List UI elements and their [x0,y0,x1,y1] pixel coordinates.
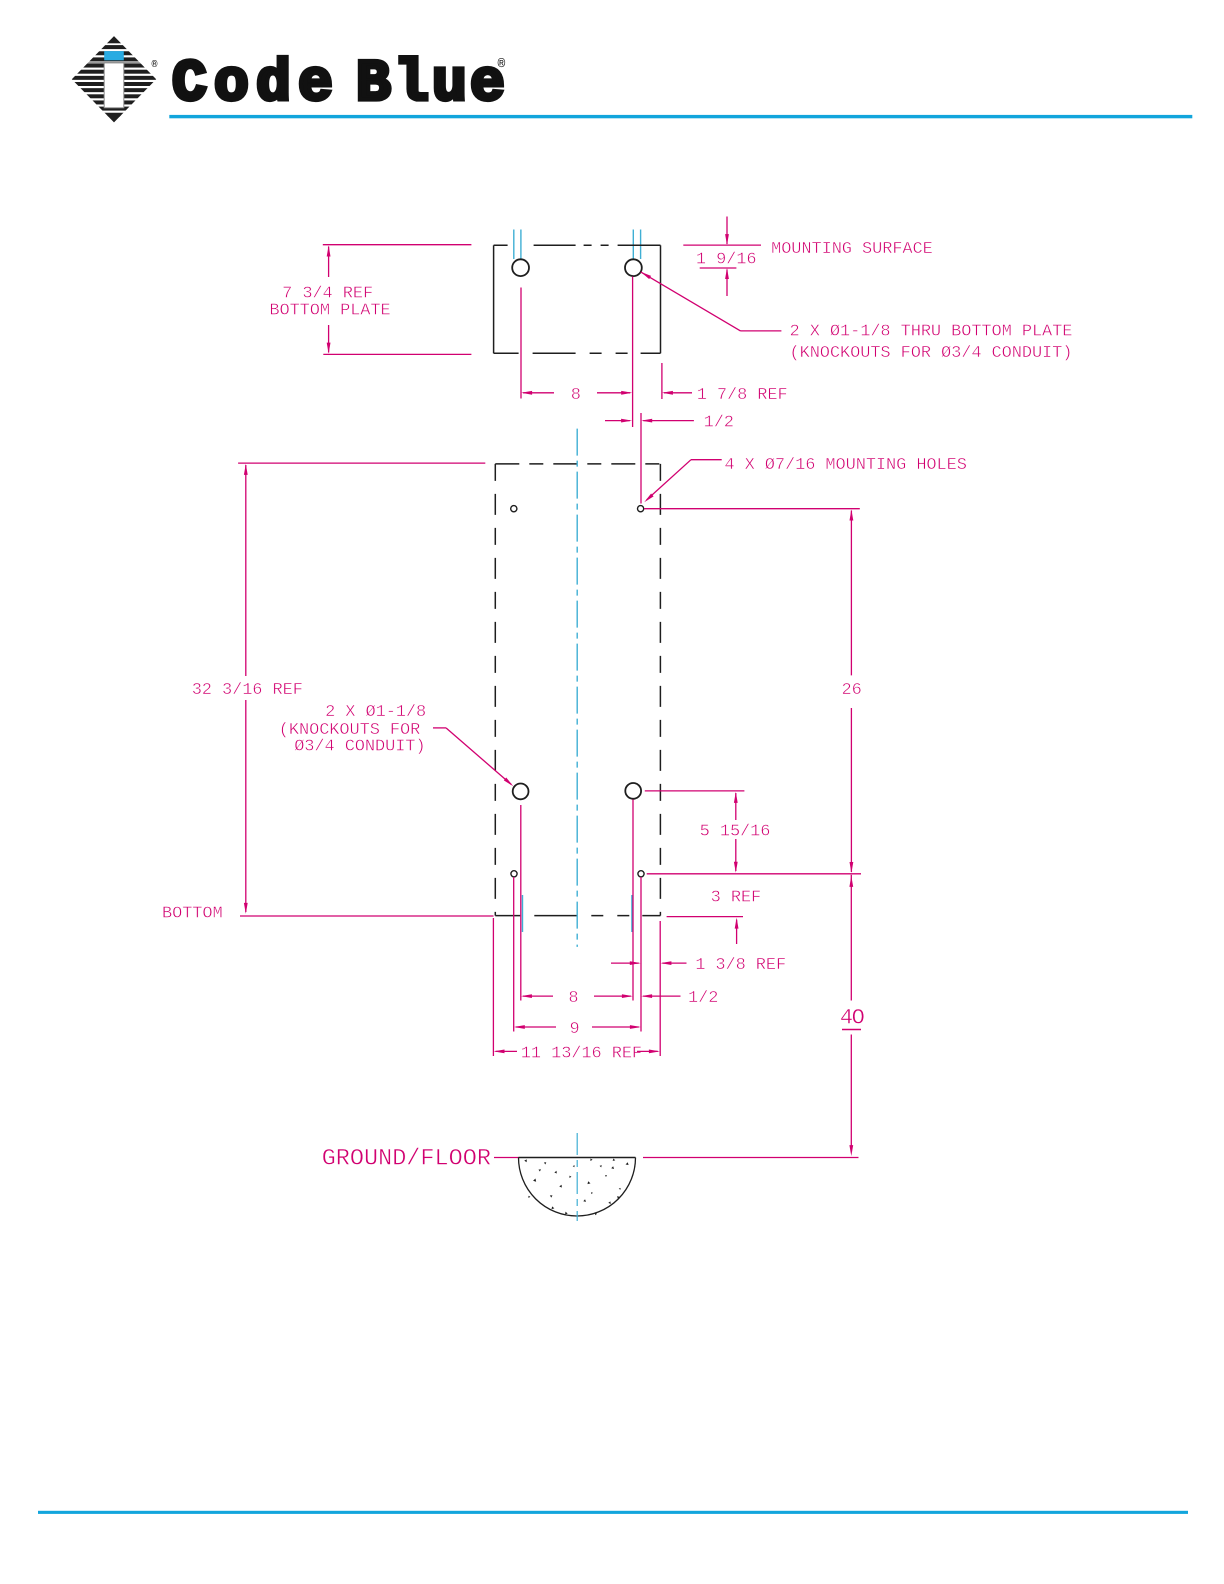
svg-text:8: 8 [571,386,581,405]
svg-text:1/2: 1/2 [704,414,734,433]
svg-text:1 7/8 REF: 1 7/8 REF [697,386,788,405]
svg-text:26: 26 [841,681,861,700]
svg-text:1/2: 1/2 [688,989,718,1008]
svg-text:Code: Code [172,53,340,118]
svg-text:BOTTOM PLATE: BOTTOM PLATE [269,302,390,321]
svg-text:2 X Ø1-1/8: 2 X Ø1-1/8 [325,703,426,722]
svg-text:2 X Ø1-1/8 THRU BOTTOM PLATE: 2 X Ø1-1/8 THRU BOTTOM PLATE [790,323,1073,342]
svg-text:8: 8 [568,989,578,1008]
svg-text:1 9/16: 1 9/16 [696,251,757,270]
svg-text:3 REF: 3 REF [711,888,762,907]
svg-text:®: ® [152,59,158,71]
svg-text:BOTTOM: BOTTOM [162,905,223,924]
svg-text:1 3/8 REF: 1 3/8 REF [695,956,786,975]
svg-text:9: 9 [569,1020,579,1039]
svg-text:GROUND/FLOOR: GROUND/FLOOR [322,1146,491,1173]
svg-text:MOUNTING SURFACE: MOUNTING SURFACE [771,240,933,259]
svg-text:Blue: Blue [356,53,508,118]
svg-text:32 3/16 REF: 32 3/16 REF [192,681,303,700]
svg-text:®: ® [498,57,506,72]
svg-text:(KNOCKOUTS FOR Ø3/4 CONDUIT): (KNOCKOUTS FOR Ø3/4 CONDUIT) [790,344,1073,363]
svg-text:Ø3/4 CONDUIT): Ø3/4 CONDUIT) [294,738,425,757]
svg-text:11 13/16 REF: 11 13/16 REF [521,1044,642,1063]
svg-text:4O: 4O [840,1006,865,1031]
svg-text:5 15/16: 5 15/16 [700,823,771,842]
svg-text:4 X Ø7/16 MOUNTING HOLES: 4 X Ø7/16 MOUNTING HOLES [724,456,966,475]
